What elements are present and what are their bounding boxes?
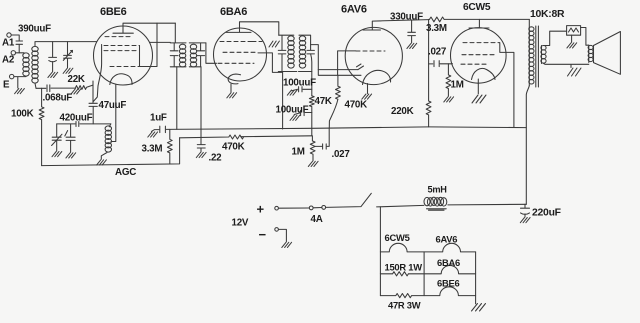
svg-text:.22: .22: [209, 153, 223, 164]
svg-text:10K:8R: 10K:8R: [530, 9, 565, 20]
svg-text:47K: 47K: [315, 96, 332, 107]
svg-text:+: +: [257, 202, 265, 217]
svg-text:22K: 22K: [68, 74, 85, 85]
svg-text:AGC: AGC: [115, 167, 136, 178]
svg-text:47R 3W: 47R 3W: [388, 300, 421, 311]
svg-text:100uuF: 100uuF: [283, 78, 316, 89]
svg-text:4A: 4A: [311, 214, 323, 225]
svg-text:.027: .027: [428, 47, 447, 58]
svg-text:100uuF: 100uuF: [276, 105, 309, 116]
svg-text:3.3M: 3.3M: [426, 23, 447, 34]
svg-text:12V: 12V: [232, 218, 249, 229]
svg-text:1uF: 1uF: [150, 113, 167, 124]
svg-text:−: −: [259, 227, 267, 242]
svg-text:6BE6: 6BE6: [100, 6, 127, 18]
svg-text:.027: .027: [332, 149, 351, 160]
svg-text:390uuF: 390uuF: [18, 24, 51, 35]
svg-text:6AV6: 6AV6: [436, 234, 458, 245]
svg-text:420uuF: 420uuF: [60, 113, 93, 124]
svg-text:6AV6: 6AV6: [341, 4, 367, 16]
svg-text:.068uF: .068uF: [43, 93, 73, 104]
svg-text:6BA6: 6BA6: [220, 6, 247, 18]
svg-text:5mH: 5mH: [428, 185, 448, 195]
svg-text:3.3M: 3.3M: [142, 144, 163, 155]
svg-text:220uF: 220uF: [532, 208, 561, 219]
svg-text:470K: 470K: [222, 142, 245, 153]
svg-text:1M: 1M: [292, 147, 305, 158]
svg-text:6BE6: 6BE6: [437, 278, 459, 289]
svg-text:47uuF: 47uuF: [99, 100, 127, 111]
svg-text:6BA6: 6BA6: [437, 257, 460, 268]
svg-text:220K: 220K: [391, 106, 414, 117]
svg-text:470K: 470K: [345, 100, 368, 111]
svg-text:A2: A2: [2, 55, 15, 66]
svg-text:6CW5: 6CW5: [385, 232, 410, 243]
svg-text:1M: 1M: [451, 80, 464, 91]
svg-text:100K: 100K: [11, 109, 34, 120]
svg-text:150R 1W: 150R 1W: [385, 262, 423, 273]
svg-text:A1: A1: [2, 38, 15, 49]
svg-text:330uuF: 330uuF: [390, 12, 423, 23]
svg-text:E: E: [3, 80, 10, 91]
svg-text:6CW5: 6CW5: [463, 2, 491, 13]
